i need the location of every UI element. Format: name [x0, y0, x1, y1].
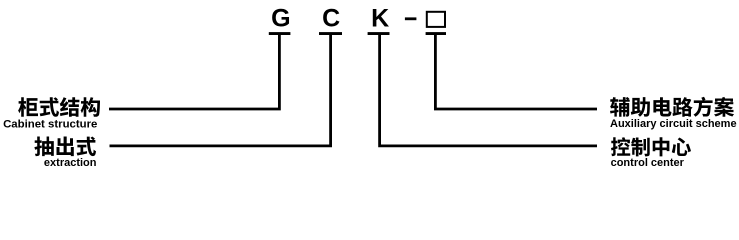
svg-text:extraction: extraction	[44, 157, 97, 169]
model designation diagram GCK	[0, 0, 739, 175]
svg-text:C: C	[322, 5, 340, 33]
dash between K and square	[405, 17, 417, 20]
wire from square down-right to auxiliary-circuit label	[435, 34, 597, 109]
underline under C	[319, 32, 342, 35]
svg-text:K: K	[371, 5, 389, 33]
svg-text:G: G	[271, 5, 290, 33]
wire from K down-right to control-center label	[380, 34, 597, 146]
label: auxiliary circuit scheme (Chinese)	[610, 97, 734, 117]
underline under G	[269, 32, 291, 35]
svg-text:Auxiliary circuit scheme: Auxiliary circuit scheme	[610, 118, 737, 130]
label: cabinet structure (Chinese)	[18, 97, 100, 117]
underline under square	[426, 32, 446, 35]
label: control center (Chinese)	[611, 137, 691, 156]
underline under K	[368, 32, 390, 35]
svg-text:Cabinet structure: Cabinet structure	[3, 119, 97, 131]
wire from C down-left to extraction label	[110, 34, 331, 146]
svg-text:control center: control center	[611, 157, 685, 169]
label: extraction (Chinese)	[34, 137, 96, 157]
wire from G down-left to cabinet-structure label	[109, 34, 279, 109]
square placeholder symbol	[427, 12, 445, 27]
